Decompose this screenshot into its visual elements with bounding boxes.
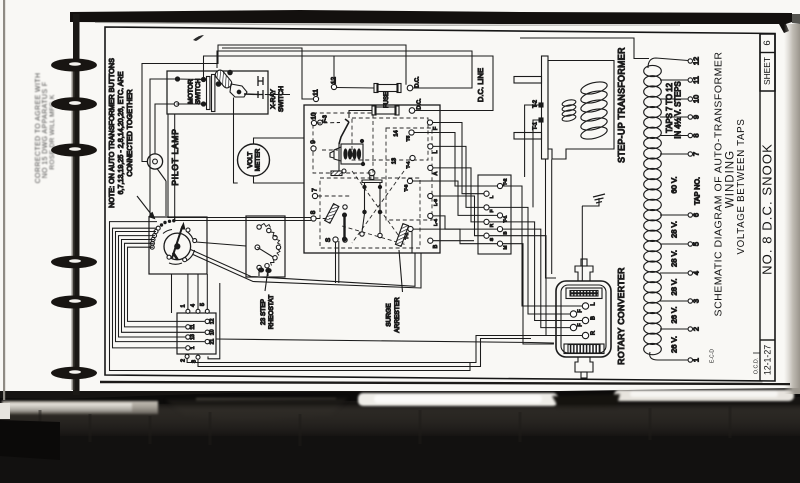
svg-text:12: 12 xyxy=(691,57,700,65)
svg-text:R: R xyxy=(489,223,495,227)
dial switch + terminal box + rheostat + surge xyxy=(149,216,403,363)
svg-text:6: 6 xyxy=(691,213,700,217)
volt meter V1 xyxy=(238,144,270,176)
small contact circles xyxy=(318,120,383,242)
svg-text:L-3: L-3 xyxy=(433,199,439,206)
D.C. terminals xyxy=(407,85,413,91)
middle terminal box xyxy=(478,175,511,254)
wire volt meter upper lead xyxy=(254,138,305,144)
smudge arrow mark top-left of frame xyxy=(193,35,204,41)
TITLE text xyxy=(709,40,774,375)
svg-text:28 V.: 28 V. xyxy=(670,250,679,267)
svg-text:L: L xyxy=(489,195,495,198)
rough dark page-edge line xyxy=(0,388,800,407)
sheet box xyxy=(760,34,775,91)
svg-text:RHEOSTAT: RHEOSTAT xyxy=(268,295,275,329)
svg-text:4: 4 xyxy=(691,271,700,275)
svg-text:D.C. LINE: D.C. LINE xyxy=(476,68,485,102)
ghost text column (blurred old stamp) xyxy=(35,73,56,184)
left edge terminals xyxy=(311,84,338,242)
auto-transformer winding coil xyxy=(644,57,702,362)
svg-text:CORRECTED TO AGREE WITH: CORRECTED TO AGREE WITH xyxy=(35,73,42,184)
svg-text:T-3: T-3 xyxy=(403,184,409,191)
svg-text:6,7,13,19,25 - 2,8,14,20,26, E: 6,7,13,19,25 - 2,8,14,20,26, ETC. ARE xyxy=(116,71,125,194)
svg-text:2: 2 xyxy=(180,359,186,362)
bottom shaft xyxy=(575,357,593,372)
wire junction block bottom wrap 1 xyxy=(187,336,582,363)
svg-text:26 V.: 26 V. xyxy=(670,336,679,353)
wire breaker to fuse F2 xyxy=(349,111,372,119)
relay circuit breaker K1 xyxy=(330,119,365,176)
svg-text:IN 4½ V. STEPS: IN 4½ V. STEPS xyxy=(674,81,683,138)
wire junction box to converter F upper xyxy=(489,207,570,314)
wire motor switch to pilot lamp xyxy=(155,104,174,154)
motor switch contacts xyxy=(175,77,179,81)
wire volt meter lower lead xyxy=(254,176,305,183)
wire S terminal drop 1 xyxy=(335,242,337,283)
body polygon xyxy=(230,84,247,97)
svg-text:TAP NO.: TAP NO. xyxy=(692,177,701,205)
wire terminal L-4 to junction box B xyxy=(433,216,498,229)
svg-text:STEP-UP TRANSFORMER: STEP-UP TRANSFORMER xyxy=(616,47,626,163)
wire terminal 12 to fuse F1 xyxy=(337,87,374,90)
note leader arrow xyxy=(137,196,155,219)
left page edge line xyxy=(3,0,5,400)
core bar xyxy=(542,56,549,159)
wire dial to rheostat xyxy=(196,242,246,246)
fuse F2 xyxy=(372,106,399,115)
SCHEMATIC group xyxy=(107,38,702,378)
dial selector switch S1 xyxy=(149,217,207,274)
wire junction block risers xyxy=(187,274,189,309)
TAPS 7 TO 12 note xyxy=(665,83,674,133)
wire junction box to converter L xyxy=(503,186,583,306)
TAP NO. header xyxy=(692,177,701,205)
wire winding top feed xyxy=(520,38,649,59)
svg-text:VOLT: VOLT xyxy=(247,152,254,168)
svg-text:11: 11 xyxy=(313,89,320,96)
bottom brush block xyxy=(564,344,604,354)
wire transformer secondary drop 2 xyxy=(551,160,553,275)
svg-text:28 V.: 28 V. xyxy=(670,221,679,238)
wire dial to switch box run 1 xyxy=(191,250,415,287)
label xyxy=(616,47,626,163)
wire terminal B stub xyxy=(433,240,474,242)
svg-text:T-2: T-2 xyxy=(502,178,508,185)
svg-text:CONNECTED TOGETHER: CONNECTED TOGETHER xyxy=(125,89,134,176)
svg-text:ROTARY CONVERTER: ROTARY CONVERTER xyxy=(616,267,626,364)
svg-text:WINDING: WINDING xyxy=(725,150,737,208)
winding loops xyxy=(644,65,662,354)
svg-text:3: 3 xyxy=(691,299,700,303)
svg-text:SWITCH: SWITCH xyxy=(195,78,202,104)
svg-text:9: 9 xyxy=(310,140,317,144)
svg-text:28 V.: 28 V. xyxy=(670,278,679,295)
label xyxy=(616,267,626,364)
svg-text:T-4: T-4 xyxy=(405,161,411,168)
wire junction box M to converter frame xyxy=(503,244,554,344)
wire winding top lead to tap 12 xyxy=(648,58,688,68)
svg-text:14: 14 xyxy=(393,130,399,136)
svg-text:11: 11 xyxy=(691,76,700,84)
svg-text:S: S xyxy=(325,238,332,242)
drop magnet lamp xyxy=(362,170,382,214)
dark wedges xyxy=(166,398,348,422)
svg-text:60 V.: 60 V. xyxy=(670,176,679,193)
svg-text:7: 7 xyxy=(691,152,700,156)
dial main circle xyxy=(164,233,191,260)
wire transformer T-1 lead xyxy=(533,120,539,207)
HV stub leads xyxy=(514,77,542,84)
svg-text:E-C-D: E-C-D xyxy=(709,349,715,363)
wire pilot lamp to D.C. fuse top bus xyxy=(142,45,406,162)
pilot lamp + volt meter + note xyxy=(107,58,270,219)
23 step rheostat R1 xyxy=(246,216,285,277)
svg-text:B: B xyxy=(433,244,439,248)
note text xyxy=(107,58,134,208)
wire dial to switch box run 2 xyxy=(193,253,421,288)
svg-text:1: 1 xyxy=(691,358,700,362)
svg-text:8: 8 xyxy=(691,133,700,137)
wire terminal F to junction box L xyxy=(433,123,484,194)
svg-text:A: A xyxy=(433,171,439,175)
top shaft xyxy=(575,266,593,281)
outer broken ring arcs xyxy=(186,231,194,243)
svg-text:7: 7 xyxy=(312,188,319,192)
svg-text:S: S xyxy=(489,238,495,241)
svg-text:9: 9 xyxy=(691,115,700,119)
svg-text:FUSE: FUSE xyxy=(384,92,390,108)
binder rod xyxy=(73,14,80,395)
binder rings xyxy=(51,59,97,380)
terminals xyxy=(570,303,588,339)
FRAME group xyxy=(100,27,790,384)
dashed inner compartments xyxy=(313,113,432,248)
svg-text:F: F xyxy=(489,209,495,212)
wire junction block to converter bottom xyxy=(216,339,554,343)
page bottom thick edge line xyxy=(100,382,790,384)
svg-text:26 V.: 26 V. xyxy=(670,306,679,323)
svg-text:1: 1 xyxy=(180,305,186,308)
tap terminals 1-12 xyxy=(688,59,692,362)
outer solid box xyxy=(304,105,440,253)
svg-text:X-RAY: X-RAY xyxy=(270,89,277,109)
svg-text:SHEET: SHEET xyxy=(762,57,772,85)
svg-text:T5: T5 xyxy=(405,135,411,141)
svg-text:T-1: T-1 xyxy=(404,232,410,239)
top commutator xyxy=(566,288,602,299)
bottom dark scan band xyxy=(0,391,800,483)
wire winding bottom lead to tap 1 xyxy=(650,352,688,360)
wire motor switch to D.C. line (lower) xyxy=(204,56,494,111)
wire terminal A to junction box R xyxy=(433,168,484,222)
wire terminal 12 riser xyxy=(333,57,335,85)
wire S terminal drop 2 xyxy=(338,241,340,283)
fade to black xyxy=(0,0,1,1)
title strip verticals xyxy=(759,34,761,382)
svg-text:B: B xyxy=(590,316,596,320)
svg-text:2: 2 xyxy=(691,327,700,331)
wire junction block bottom wrap 2 xyxy=(198,339,531,367)
ground xyxy=(582,198,599,206)
dial contacts (left arc) xyxy=(150,226,197,262)
svg-text:D.C.: D.C. xyxy=(414,76,420,88)
svg-text:12: 12 xyxy=(210,318,216,324)
upper contact xyxy=(258,76,263,86)
central switch box xyxy=(304,77,440,253)
wire transformer T-2 lead xyxy=(525,105,539,177)
T-2 / T-1 terminals xyxy=(539,103,543,107)
bottom-left bundle xyxy=(110,222,471,371)
svg-text:10: 10 xyxy=(210,329,216,335)
surge arrester label and leader xyxy=(399,250,403,292)
svg-text:13: 13 xyxy=(391,158,397,164)
secondary coil (big loops) xyxy=(580,80,609,142)
svg-text:6: 6 xyxy=(762,40,773,45)
date box divider xyxy=(760,339,775,341)
svg-text:5: 5 xyxy=(200,303,206,306)
svg-text:5: 5 xyxy=(691,242,700,246)
svg-text:L: L xyxy=(433,151,439,154)
svg-text:NOTE: ON AUTO TRANSFORMER BUTT: NOTE: ON AUTO TRANSFORMER BUTTONS xyxy=(107,58,116,208)
svg-text:T-2: T-2 xyxy=(532,100,538,108)
wire junction box to converter R xyxy=(489,236,582,336)
svg-text:23 STEP: 23 STEP xyxy=(260,299,267,325)
D.C. LINE label xyxy=(476,68,485,102)
x-ray switch handle (hatched) xyxy=(214,68,263,99)
wire junction box to converter F lower xyxy=(503,229,571,328)
wire x-ray switch to D.C. line (upper) xyxy=(217,51,472,88)
wire terminal T-3 to junction box T-1 xyxy=(413,181,498,215)
svg-text:10: 10 xyxy=(311,112,318,120)
wire converter frame to ground xyxy=(581,206,583,281)
svg-text:M: M xyxy=(502,246,508,250)
lamp legs to contacts xyxy=(362,214,365,232)
pilot lamp DS1 xyxy=(147,154,162,169)
tap numbers 1-12 xyxy=(691,57,700,362)
body xyxy=(556,281,611,357)
svg-text:METER: METER xyxy=(255,148,262,171)
svg-text:B: B xyxy=(502,231,508,234)
svg-text:SWITCH: SWITCH xyxy=(278,86,285,112)
S terminal drops xyxy=(208,283,220,359)
step-up transformer xyxy=(514,47,626,206)
svg-text:11: 11 xyxy=(190,324,196,329)
knife blade contacts xyxy=(325,204,339,224)
tap voltage labels xyxy=(670,176,679,353)
svg-text:4: 4 xyxy=(190,304,196,307)
box xyxy=(167,71,268,114)
switch base double bar xyxy=(207,77,210,110)
svg-text:SCHEMATIC DIAGRAM OF AUTO-T: SCHEMATIC DIAGRAM OF AUTO-TRANSFORMER xyxy=(712,52,724,317)
svg-text:F: F xyxy=(577,323,583,326)
svg-text:R: R xyxy=(590,331,596,335)
tap lines taps 2-11 xyxy=(660,80,688,329)
svg-text:NO. 8 D.C. SNOOK: NO. 8 D.C. SNOOK xyxy=(759,143,774,275)
svg-text:SURGE: SURGE xyxy=(386,303,393,327)
svg-text:O.C.D.: O.C.D. xyxy=(753,358,759,374)
wire x-ray switch drop xyxy=(234,98,238,184)
white page-edge streaks xyxy=(2,390,794,414)
wire transformer secondary drop 1 xyxy=(546,160,557,279)
wire terminal L-3 to junction box S xyxy=(433,196,484,236)
fuse F1 xyxy=(374,84,401,93)
rotary converter xyxy=(556,259,626,378)
svg-text:MOTOR: MOTOR xyxy=(187,79,194,104)
right/mid terminal circles xyxy=(407,120,433,243)
svg-text:VOLTAGE BETWEEN TAPS: VOLTAGE BETWEEN TAPS xyxy=(736,118,747,254)
svg-text:F: F xyxy=(577,309,583,312)
svg-text:1: 1 xyxy=(190,346,196,349)
wire terminal 11 to top bus xyxy=(222,48,313,99)
outline box xyxy=(548,61,614,160)
right page edge shading xyxy=(0,0,1,1)
fuses and DC xyxy=(372,68,485,115)
wire terminal T-1 to junction box M xyxy=(413,229,497,244)
svg-text:13: 13 xyxy=(190,334,196,340)
wire terminal T5 to junction box T-2 xyxy=(414,133,497,187)
wire terminal L to junction box F xyxy=(433,146,484,207)
wire motor switch to dial selector xyxy=(150,79,175,215)
svg-text:L: L xyxy=(590,302,596,305)
junction terminal box xyxy=(478,175,511,254)
svg-text:D.C.: D.C. xyxy=(416,98,422,110)
top dark scan band xyxy=(70,10,792,33)
svg-text:8: 8 xyxy=(310,210,317,214)
svg-text:21: 21 xyxy=(210,339,216,345)
drawing border xyxy=(105,27,775,381)
svg-text:ARRESTER: ARRESTER xyxy=(394,297,401,333)
junction terminal block TB1 xyxy=(177,313,216,354)
svg-text:12-1-27: 12-1-27 xyxy=(762,345,772,375)
svg-text:F-3: F-3 xyxy=(322,115,328,123)
svg-text:10: 10 xyxy=(691,95,700,103)
pointer arm xyxy=(172,226,183,258)
svg-text:L-4: L-4 xyxy=(433,219,439,226)
primary coil (small loops) xyxy=(562,99,577,123)
center knife bar xyxy=(343,213,345,240)
motor / x-ray switch xyxy=(167,68,285,114)
wire junction box to converter B xyxy=(489,222,582,321)
